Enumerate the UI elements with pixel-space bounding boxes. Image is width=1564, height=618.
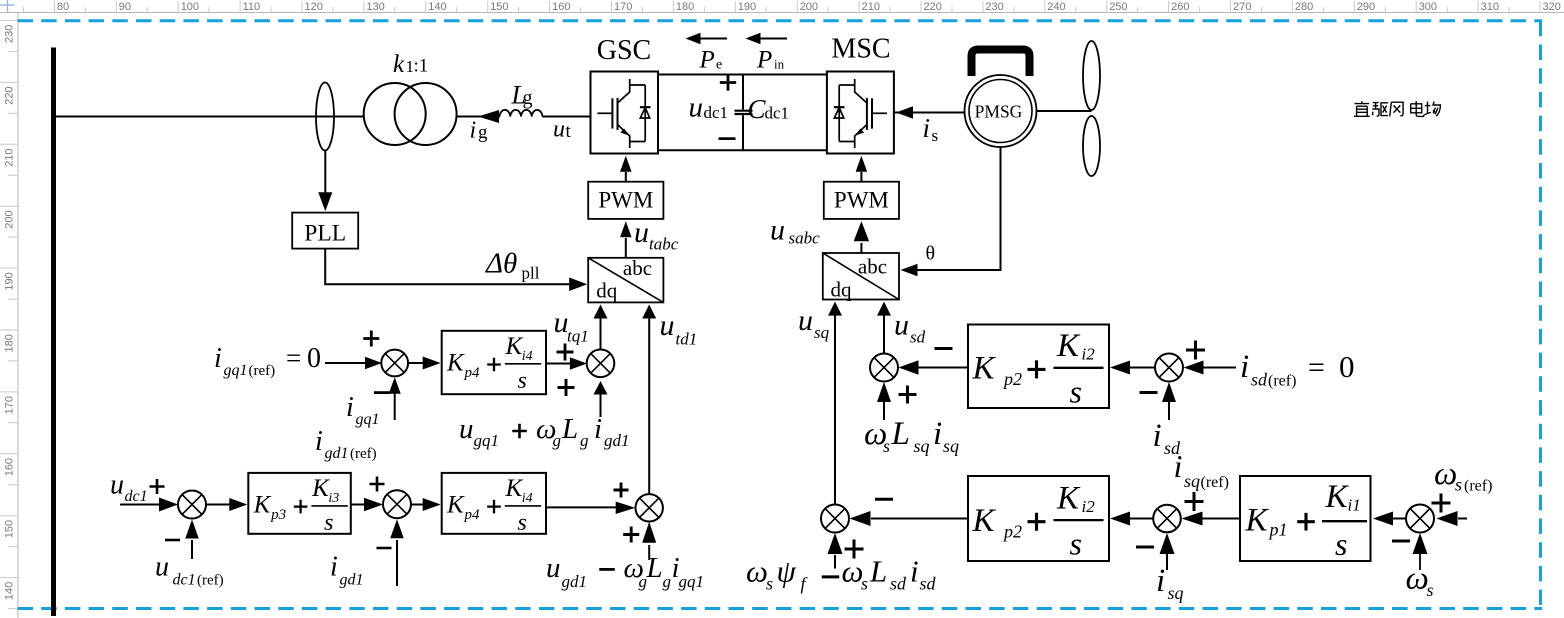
svg-text:abc: abc — [858, 255, 887, 279]
svg-text:p4: p4 — [464, 365, 481, 381]
svg-text::1: :1 — [414, 56, 429, 77]
svg-text:PWM: PWM — [834, 188, 889, 213]
svg-text:PLL: PLL — [304, 221, 346, 247]
svg-text:i4: i4 — [522, 349, 533, 364]
svg-text:=: = — [286, 343, 301, 373]
svg-text:i4: i4 — [522, 491, 533, 506]
arrow wsLsqisq into A — [883, 400, 885, 420]
plus at S1 — [363, 331, 379, 347]
svg-text:tabc: tabc — [649, 235, 679, 254]
svg-text:g: g — [523, 87, 533, 109]
svg-text:sq: sq — [914, 436, 930, 456]
svg-text:270: 270 — [1233, 1, 1251, 13]
svg-text:160: 160 — [4, 458, 16, 476]
svg-text:ψ: ψ — [777, 554, 797, 589]
svg-text:=: = — [1308, 351, 1325, 384]
svg-text:gd1: gd1 — [604, 431, 630, 450]
arrow Pe — [699, 38, 727, 40]
svg-text:L: L — [891, 416, 910, 452]
plus at S3 — [150, 479, 165, 494]
plus at D — [1185, 492, 1204, 511]
svg-text:(ref): (ref) — [1201, 474, 1229, 491]
svg-text:300: 300 — [1419, 1, 1437, 13]
summing junction S3 — [178, 491, 206, 519]
svg-text:i: i — [1240, 349, 1249, 385]
minus at C — [875, 498, 893, 501]
svg-text:i: i — [214, 343, 222, 374]
svg-text:140: 140 — [4, 582, 16, 600]
svg-text:220: 220 — [924, 1, 942, 13]
inductor Lg — [500, 110, 543, 117]
svg-text:i: i — [315, 426, 323, 457]
svg-text:sq: sq — [943, 436, 959, 456]
svg-text:sq: sq — [1184, 471, 1200, 491]
svg-text:p2: p2 — [1002, 369, 1022, 389]
MSC IGBT Q2 — [855, 79, 887, 148]
arrow dq to PWM (utabc) — [625, 238, 627, 258]
svg-text:230: 230 — [4, 25, 16, 43]
wire Kp2 no1 to sum A — [917, 367, 968, 369]
wire Kp1 to sum D — [1202, 518, 1240, 520]
svg-text:90: 90 — [119, 1, 131, 13]
wire Kp2 no2 to sum C — [871, 518, 968, 520]
dc link bottom wire — [658, 149, 827, 151]
svg-text:190: 190 — [738, 1, 756, 13]
wire S4 to PI4 — [412, 504, 426, 506]
svg-text:u: u — [155, 551, 169, 582]
svg-text:θ: θ — [926, 243, 936, 265]
svg-text:130: 130 — [366, 1, 384, 13]
svg-text:u: u — [546, 552, 561, 584]
top ruler — [0, 1, 1564, 13]
svg-text:310: 310 — [1481, 1, 1499, 13]
minus at D — [1136, 546, 1154, 549]
svg-text:s: s — [1427, 580, 1434, 600]
MSC freewheel diode D2 — [834, 85, 855, 142]
svg-text:170: 170 — [4, 396, 16, 414]
arrow dq to PWM (usabc) — [860, 243, 862, 253]
svg-text:P: P — [756, 47, 772, 74]
ruler corner crosshair — [0, 0, 15, 12]
wire sum D to Kp2 no2 — [1128, 518, 1153, 520]
svg-text:dc1: dc1 — [765, 104, 790, 123]
svg-text:sd: sd — [920, 574, 937, 594]
svg-text:i: i — [933, 416, 942, 452]
svg-text:gd1: gd1 — [340, 571, 364, 588]
left ruler — [0, 13, 18, 618]
wire S3 to PI3 — [207, 504, 232, 506]
arrow ugd1 term into S5 — [648, 545, 650, 560]
arrow igd1 into S4 — [396, 540, 398, 586]
svg-text:u: u — [689, 92, 704, 124]
svg-text:100: 100 — [181, 1, 199, 13]
arrow ellipse to PLL — [324, 150, 326, 195]
svg-text:140: 140 — [428, 1, 446, 13]
svg-text:(ref): (ref) — [249, 363, 276, 379]
summing junction S4 — [383, 490, 411, 518]
svg-text:K: K — [505, 333, 524, 360]
svg-text:180: 180 — [676, 1, 694, 13]
GSC freewheel diode D1 — [630, 85, 651, 142]
block PI Kp1 Ki1/s — [1240, 476, 1371, 561]
svg-text:g: g — [663, 572, 672, 591]
converter GSC box — [591, 72, 659, 154]
svg-text:i: i — [1156, 563, 1165, 599]
minus at B — [1140, 391, 1158, 394]
svg-text:K: K — [253, 492, 272, 519]
svg-text:K: K — [311, 475, 330, 502]
plus at S4 — [370, 477, 385, 492]
summing junction D — [1153, 505, 1181, 533]
svg-text:i1: i1 — [1348, 496, 1361, 515]
svg-text:K: K — [446, 492, 465, 519]
svg-text:u: u — [634, 216, 649, 249]
svg-text:K: K — [1056, 328, 1081, 364]
svg-text:k: k — [393, 51, 405, 78]
svg-text:K: K — [505, 475, 524, 502]
svg-text:p4: p4 — [464, 507, 481, 523]
svg-text:i: i — [470, 118, 477, 144]
svg-text:250: 250 — [1109, 1, 1127, 13]
block PWM (MSC) — [824, 182, 899, 219]
svg-text:220: 220 — [4, 87, 16, 105]
wire sum B to Kp2 no1 — [1128, 367, 1155, 369]
wire PI3 to sum S4 — [351, 504, 368, 506]
block abc/dq (MSC) — [823, 253, 899, 300]
svg-text:150: 150 — [490, 1, 508, 13]
minus at S1 — [374, 391, 390, 394]
converter MSC box — [827, 72, 894, 154]
svg-text:sabc: sabc — [789, 229, 821, 248]
wire wsref into E — [1458, 518, 1467, 520]
svg-text:tq1: tq1 — [567, 327, 589, 346]
svg-text:i2: i2 — [1082, 345, 1096, 364]
svg-text:s: s — [1335, 526, 1347, 562]
svg-text:u: u — [660, 309, 675, 342]
block abc/dq (GSC) — [588, 258, 663, 303]
svg-text:e: e — [716, 58, 722, 73]
label wind farm (Chinese) — [1354, 101, 1440, 116]
svg-text:g: g — [553, 431, 562, 450]
block PI Kp2 Ki2/s (no.1) — [968, 325, 1109, 409]
minus at S4 — [377, 547, 392, 550]
svg-text:i: i — [910, 554, 919, 589]
wire sum A up to abc/dq (usd) — [883, 314, 885, 354]
svg-text:gq1: gq1 — [679, 572, 705, 591]
svg-text:ω: ω — [746, 554, 768, 589]
svg-text:0: 0 — [307, 343, 321, 374]
svg-text:u: u — [459, 413, 474, 445]
svg-text:260: 260 — [1171, 1, 1189, 13]
svg-text:i3: i3 — [328, 491, 339, 506]
wire sum C up to abc/dq (usq) — [834, 314, 836, 505]
arrow PWM to GSC — [625, 172, 627, 182]
svg-text:gq1: gq1 — [356, 411, 380, 428]
summing junction S5 — [636, 494, 663, 521]
svg-text:150: 150 — [4, 520, 16, 538]
svg-text:K: K — [1325, 479, 1350, 515]
wire transformer to inductor with ig arrow — [457, 116, 501, 118]
turbine blade bottom — [1083, 116, 1100, 176]
wire PI4 to sum S5 — [546, 506, 618, 508]
svg-text:L: L — [561, 413, 578, 445]
wire inductor to GSC — [543, 116, 591, 118]
summing junction S2 — [587, 350, 615, 378]
svg-text:(ref): (ref) — [1464, 478, 1492, 495]
svg-text:u: u — [770, 214, 785, 247]
svg-text:dc1: dc1 — [704, 103, 729, 122]
svg-text:s: s — [518, 510, 527, 536]
svg-text:K: K — [1245, 502, 1270, 538]
wire S5 up to abc/dq (utd1) — [648, 317, 650, 494]
plus at C — [845, 540, 864, 559]
svg-text:s: s — [861, 574, 868, 594]
svg-text:p1: p1 — [1268, 520, 1288, 540]
svg-text:Δθ: Δθ — [485, 248, 517, 280]
svg-text:ω: ω — [1434, 456, 1457, 492]
svg-text:0: 0 — [1339, 349, 1355, 384]
svg-text:s: s — [1070, 373, 1082, 409]
summing junction A — [870, 354, 898, 382]
svg-text:s: s — [1455, 475, 1462, 495]
svg-text:sd: sd — [1251, 370, 1268, 390]
svg-text:L: L — [869, 554, 887, 589]
svg-text:abc: abc — [623, 256, 652, 280]
svg-text:P: P — [699, 47, 715, 74]
svg-text:gd1: gd1 — [325, 445, 349, 462]
svg-text:i: i — [594, 413, 602, 445]
svg-text:160: 160 — [552, 1, 570, 13]
wire igq1ref to sum S1 — [325, 362, 365, 364]
svg-text:gd1: gd1 — [562, 572, 588, 591]
plus left at S5 — [614, 483, 629, 498]
minus at E — [1392, 540, 1410, 543]
voltage sensor ellipse — [316, 83, 334, 151]
arrow isd into B — [1168, 401, 1170, 420]
svg-text:u: u — [894, 309, 909, 342]
svg-text:td1: td1 — [676, 330, 698, 349]
svg-text:MSC: MSC — [831, 34, 890, 65]
block PI Kp2 Ki2/s (no.2) — [968, 476, 1109, 561]
svg-text:K: K — [446, 350, 465, 377]
svg-text:ω: ω — [1406, 561, 1429, 597]
svg-text:dq: dq — [831, 278, 853, 302]
svg-text:110: 110 — [243, 1, 261, 13]
svg-text:210: 210 — [4, 148, 16, 166]
wire MSC to PMSG with is arrow — [894, 112, 965, 114]
svg-text:s: s — [883, 436, 890, 456]
svg-text:s: s — [1070, 526, 1082, 562]
svg-text:K: K — [1056, 481, 1081, 517]
label + (dc) — [720, 74, 736, 90]
svg-text:pll: pll — [522, 264, 540, 283]
plus left at S2 — [557, 344, 574, 361]
svg-text:gq1: gq1 — [224, 362, 248, 379]
svg-text:320: 320 — [1543, 1, 1561, 13]
svg-text:i: i — [1174, 448, 1183, 484]
svg-text:s: s — [766, 574, 773, 594]
svg-text:230: 230 — [985, 1, 1003, 13]
block PI Kp4 Ki4/s (no.1) — [442, 331, 546, 394]
svg-text:u: u — [553, 117, 565, 143]
svg-text:g: g — [580, 431, 589, 450]
svg-text:dq: dq — [596, 279, 618, 303]
arrow wspsif term into C — [834, 555, 836, 569]
svg-text:200: 200 — [4, 210, 16, 228]
arrow udc1ref into S3 — [191, 540, 193, 559]
svg-text:t: t — [566, 121, 572, 142]
block PWM (GSC) — [588, 182, 663, 219]
summing junction B — [1155, 354, 1183, 382]
svg-text:120: 120 — [305, 1, 323, 13]
svg-text:190: 190 — [4, 272, 16, 290]
capacitor Cdc1 — [742, 75, 744, 110]
svg-text:dc1: dc1 — [173, 571, 196, 588]
svg-text:(ref): (ref) — [350, 446, 377, 462]
summing junction C — [821, 505, 849, 533]
svg-text:s: s — [932, 126, 939, 145]
minus at A — [935, 347, 953, 350]
stator bracket — [972, 50, 1030, 77]
svg-text:i: i — [923, 113, 931, 143]
wire isdref to sum B — [1200, 367, 1236, 369]
wire udc1 to sum S3 — [120, 504, 162, 506]
wire S2 up to abc/dq (utq1) — [600, 317, 602, 350]
generator PMSG — [965, 75, 1037, 147]
svg-text:L: L — [646, 552, 663, 584]
svg-text:i2: i2 — [1082, 497, 1096, 516]
svg-text:s: s — [324, 510, 333, 536]
plus at A — [899, 386, 917, 404]
svg-text:dc1: dc1 — [125, 488, 148, 505]
svg-text:sq: sq — [814, 323, 830, 342]
svg-text:s: s — [518, 368, 527, 394]
svg-text:p2: p2 — [1002, 521, 1022, 541]
plus at B — [1186, 341, 1205, 360]
dc link top wire — [658, 74, 827, 76]
svg-text:g: g — [478, 122, 488, 143]
label - (dc) — [719, 137, 736, 140]
wire PI1 to sum S2 — [546, 363, 570, 365]
turbine blade top — [1083, 41, 1100, 110]
svg-text:PWM: PWM — [598, 188, 653, 213]
arrow isq into D — [1166, 553, 1168, 570]
wire S1 to PI1 — [408, 362, 426, 364]
svg-text:sd: sd — [910, 328, 926, 347]
svg-text:GSC: GSC — [597, 35, 651, 66]
svg-text:i: i — [1153, 418, 1162, 454]
arrow ugq1 term into S2 — [600, 394, 602, 417]
svg-text:(ref): (ref) — [197, 572, 224, 588]
arrow PWM to MSC — [860, 172, 862, 182]
GSC IGBT Q1 — [597, 79, 629, 148]
svg-text:80: 80 — [57, 1, 69, 13]
svg-text:gq1: gq1 — [474, 431, 500, 450]
svg-text:180: 180 — [4, 334, 16, 352]
wire bus to ellipse/transformer — [56, 116, 364, 118]
svg-text:u: u — [110, 470, 124, 501]
svg-text:240: 240 — [1047, 1, 1065, 13]
transformer T1 — [364, 83, 426, 145]
svg-text:K: K — [972, 351, 997, 387]
bus bar — [51, 48, 56, 617]
plus at E — [1432, 494, 1451, 513]
svg-text:sq: sq — [1168, 583, 1184, 603]
svg-text:PMSG: PMSG — [975, 101, 1023, 121]
svg-text:170: 170 — [614, 1, 632, 13]
svg-text:200: 200 — [800, 1, 818, 13]
svg-text:K: K — [972, 503, 997, 539]
arrow igq1 into S1 — [394, 394, 396, 421]
plus below at S2 — [558, 379, 575, 396]
arrow Pin — [759, 38, 787, 40]
summing junction S1 — [381, 350, 408, 377]
block PLL — [292, 213, 358, 249]
svg-text:p3: p3 — [270, 507, 286, 523]
minus at S3 — [165, 539, 180, 542]
svg-text:i: i — [330, 551, 338, 582]
block PI Kp4 Ki4/s (no.2) — [442, 473, 546, 534]
block PI Kp3 Ki3/s — [248, 473, 350, 534]
wire PMSG theta to dq — [917, 147, 1001, 270]
svg-text:sd: sd — [890, 574, 907, 594]
summing junction E — [1406, 505, 1434, 533]
svg-text:210: 210 — [862, 1, 880, 13]
svg-text:i: i — [346, 392, 354, 423]
svg-text:280: 280 — [1295, 1, 1313, 13]
svg-text:290: 290 — [1357, 1, 1375, 13]
turbine shaft wire — [1037, 110, 1092, 112]
svg-text:u: u — [798, 304, 813, 337]
arrow ws into E — [1419, 553, 1421, 570]
wire PLL to abc/dq (delta theta pll) — [325, 249, 570, 285]
svg-text:in: in — [774, 57, 785, 72]
wire sum E to Kp1 — [1390, 518, 1406, 520]
plus below at S5 — [623, 527, 639, 543]
svg-text:(ref): (ref) — [1268, 373, 1296, 390]
